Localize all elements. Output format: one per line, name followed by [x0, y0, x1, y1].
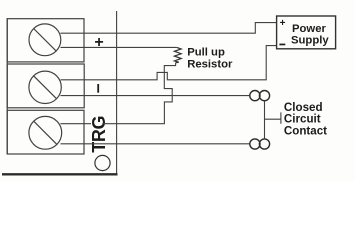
svg-text:Power: Power: [292, 23, 327, 35]
terminal block TB2 (-): [7, 64, 84, 108]
svg-text:Contact: Contact: [284, 125, 327, 138]
svg-text:Resistor: Resistor: [187, 58, 233, 70]
wire: contact link vertical: [264, 101, 266, 139]
panel edge vertical: [116, 11, 118, 174]
power supply box U1: [277, 16, 336, 49]
contact terminal A circles: [250, 91, 270, 101]
wire W3b: terminal 3 (TRG) to contact terminal B: [61, 143, 250, 145]
indicator circle below TRG: [95, 155, 110, 170]
contact terminal B circles: [250, 139, 270, 149]
screw S1: [29, 24, 61, 56]
svg-text:TRG: TRG: [89, 116, 109, 153]
panel bottom bar: [2, 173, 118, 175]
mounting rail: [6, 18, 8, 154]
wire W1a: terminal 1 to power supply +: [61, 23, 277, 34]
resistor R1 (pull up): [174, 47, 181, 62]
contact label tick: [265, 112, 281, 123]
svg-text:Pull up: Pull up: [187, 46, 225, 58]
svg-text:+: +: [280, 18, 286, 29]
label - (terminal 2, rotated minus): [97, 84, 99, 93]
wire: resistor bottom to TRG line (with crossover jogs): [61, 63, 176, 124]
label - (power supply): [279, 44, 285, 46]
screw S3: [29, 116, 62, 149]
svg-text:Supply: Supply: [291, 35, 329, 47]
screw S2: [29, 71, 61, 103]
svg-text:+: +: [94, 34, 103, 51]
wire W2a: terminal 2 to power supply - (hop over resistor drop): [61, 46, 277, 80]
wire W1b: terminal 1 to pull-up resistor top: [61, 46, 177, 48]
terminal block TB1 (+): [7, 19, 84, 62]
terminal block TB3 (TRG): [7, 110, 84, 154]
wire W2b: terminal 2 to contact terminal A: [61, 95, 250, 97]
